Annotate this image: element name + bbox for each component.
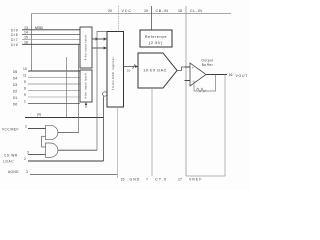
svg-text:AGND: AGND	[8, 170, 19, 174]
wire riser from line 16	[78, 44, 80, 132]
gate G1 AND	[46, 125, 58, 139]
svg-text:D2: D2	[13, 90, 17, 94]
svg-text:VOUT: VOUT	[236, 74, 249, 78]
wire data line D5 pin 10	[13, 67, 80, 74]
reference U4 2.5V reference	[140, 30, 172, 47]
gate G2 AND	[46, 143, 58, 157]
svg-text:Reference: Reference	[145, 35, 167, 39]
wire DAC to op-amp	[177, 67, 190, 71]
svg-text:CL-IN: CL-IN	[190, 9, 203, 13]
pin 16 VOUT output	[206, 73, 248, 78]
svg-text:(4): (4)	[37, 113, 41, 117]
wire gate1 output	[58, 132, 79, 134]
wire gate1 input WR riser	[41, 136, 43, 147]
svg-text:5: 5	[24, 80, 26, 84]
wire control line LE	[25, 113, 104, 118]
svg-text:DI6: DI6	[11, 43, 18, 47]
pin 18 REF IN rail	[178, 6, 203, 176]
svg-text:CS-WR: CS-WR	[4, 154, 18, 158]
wire riser from data line	[66, 57, 68, 118]
svg-text:10: 10	[23, 67, 27, 71]
wire gate2 input shared	[42, 146, 46, 148]
svg-text:19: 19	[144, 9, 148, 13]
svg-text:D1: D1	[13, 96, 17, 100]
svg-text:D0: D0	[13, 103, 17, 107]
svg-text:(2.5V): (2.5V)	[149, 41, 163, 45]
svg-text:6-bit input latch: 6-bit input latch	[83, 73, 87, 98]
wire feedback small loop	[194, 75, 216, 93]
pin 19 CLK IN top	[144, 6, 169, 30]
svg-text:4-bit input latch: 4-bit input latch	[83, 35, 87, 60]
svg-text:16: 16	[24, 40, 28, 44]
wire data line D3 pin 5	[13, 80, 80, 87]
wire LDAC line	[3, 157, 104, 164]
svg-text:1: 1	[24, 100, 26, 104]
DAC U5 10-bit DAC	[138, 53, 177, 88]
svg-text:LDAC: LDAC	[3, 160, 14, 164]
wire gate2 input CS	[4, 151, 46, 158]
wire data line DI6 pin 16	[11, 40, 80, 47]
svg-text:VCC/REF: VCC/REF	[2, 127, 19, 131]
svg-text:6: 6	[24, 87, 26, 91]
wire data line D4 pin 11	[13, 74, 80, 81]
wire data line D2 pin 6	[13, 87, 80, 94]
pin 20 VCC top	[108, 6, 132, 32]
wire gate1 input ILE	[2, 124, 46, 131]
wire feedback outer loop	[186, 75, 225, 177]
svg-text:CT.0: CT.0	[155, 178, 167, 182]
wire data line D0 pin 1	[13, 100, 80, 107]
svg-text:VREF: VREF	[189, 178, 202, 182]
svg-text:GND: GND	[130, 178, 141, 182]
wire latch to register arrow B	[92, 46, 107, 49]
svg-text:3: 3	[26, 170, 28, 174]
wire data line DI9 pin 13	[11, 26, 80, 33]
svg-text:2: 2	[24, 157, 26, 161]
svg-text:9: 9	[24, 93, 26, 97]
svg-text:17: 17	[178, 178, 182, 182]
svg-text:18: 18	[178, 9, 182, 13]
svg-text:15: 15	[121, 178, 125, 182]
latch U2 lower 6-bit input latch	[80, 70, 92, 102]
svg-text:15: 15	[24, 35, 28, 39]
wire AGND line	[8, 170, 118, 175]
wire latch to register arrow A	[92, 37, 107, 40]
svg-text:DI8: DI8	[11, 33, 18, 37]
wire gate2 output rail	[58, 32, 107, 151]
svg-text:D3: D3	[13, 83, 17, 87]
wire data line DI7 pin 15	[11, 35, 80, 42]
svg-text:14: 14	[24, 31, 28, 35]
wire data line DI8 pin 14	[11, 31, 80, 38]
svg-text:+: +	[192, 66, 194, 70]
pin 7 CTL0 bottom	[146, 88, 167, 182]
svg-text:10-bit DAC: 10-bit DAC	[143, 69, 167, 73]
svg-text:2: 2	[25, 124, 27, 128]
wire data line D1 pin 9	[13, 93, 80, 100]
svg-text:20: 20	[108, 9, 112, 13]
svg-text:3: 3	[27, 151, 29, 155]
svg-text:7: 7	[146, 178, 148, 182]
pin 15 GND bottom	[118, 107, 141, 182]
svg-text:16: 16	[229, 73, 233, 77]
wire top horizontal rail	[32, 13, 232, 15]
pin 17 VREF bottom	[178, 178, 202, 182]
bubble enable	[103, 92, 107, 96]
op-amp U6 output buffer	[190, 63, 206, 86]
svg-text:10: 10	[127, 68, 131, 72]
svg-text:DI9: DI9	[11, 29, 18, 33]
svg-text:11: 11	[23, 74, 27, 78]
svg-text:D5: D5	[13, 70, 17, 74]
svg-text:13: 13	[24, 26, 28, 30]
wire top-left vertical	[31, 14, 33, 72]
svg-text:Buffer: Buffer	[202, 63, 214, 67]
wire register to DAC bus	[124, 64, 139, 72]
svg-text:D4: D4	[13, 77, 17, 81]
arrow into latch B	[85, 102, 87, 108]
svg-text:VCC: VCC	[122, 9, 132, 13]
svg-text:-: -	[192, 80, 194, 84]
svg-text:DI7: DI7	[11, 38, 18, 42]
svg-text:10-bit DAC register: 10-bit DAC register	[111, 57, 115, 90]
latch U1 upper 4-bit input latch	[80, 27, 92, 68]
wire riser to enable bubble	[103, 96, 105, 161]
svg-text:CB-IN: CB-IN	[156, 9, 169, 13]
register U3 DAC register	[107, 32, 124, 108]
